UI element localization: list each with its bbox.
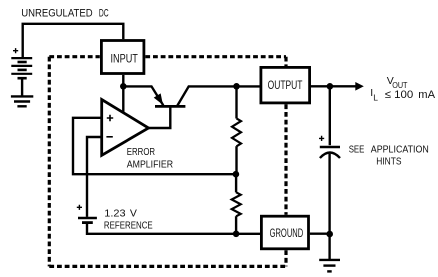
svg-text:mA: mA bbox=[418, 89, 435, 101]
svg-text:100: 100 bbox=[394, 89, 413, 101]
svg-text:L: L bbox=[373, 93, 378, 103]
svg-text:DC: DC bbox=[99, 7, 109, 19]
svg-text:HINTS: HINTS bbox=[376, 156, 401, 168]
svg-text:INPUT: INPUT bbox=[111, 51, 138, 65]
svg-text:V: V bbox=[130, 207, 137, 219]
svg-text:REFERENCE: REFERENCE bbox=[104, 219, 153, 231]
svg-text:ERROR: ERROR bbox=[127, 146, 156, 158]
svg-text:UNREGULATED: UNREGULATED bbox=[21, 7, 92, 19]
svg-text:GROUND: GROUND bbox=[270, 226, 304, 240]
svg-text:APPLICATION: APPLICATION bbox=[371, 143, 429, 155]
svg-text:≤: ≤ bbox=[385, 89, 391, 101]
svg-text:AMPLIFIER: AMPLIFIER bbox=[127, 159, 174, 171]
svg-text:OUTPUT: OUTPUT bbox=[268, 78, 303, 92]
svg-text:1.23: 1.23 bbox=[104, 207, 125, 219]
svg-text:SEE: SEE bbox=[349, 143, 365, 155]
